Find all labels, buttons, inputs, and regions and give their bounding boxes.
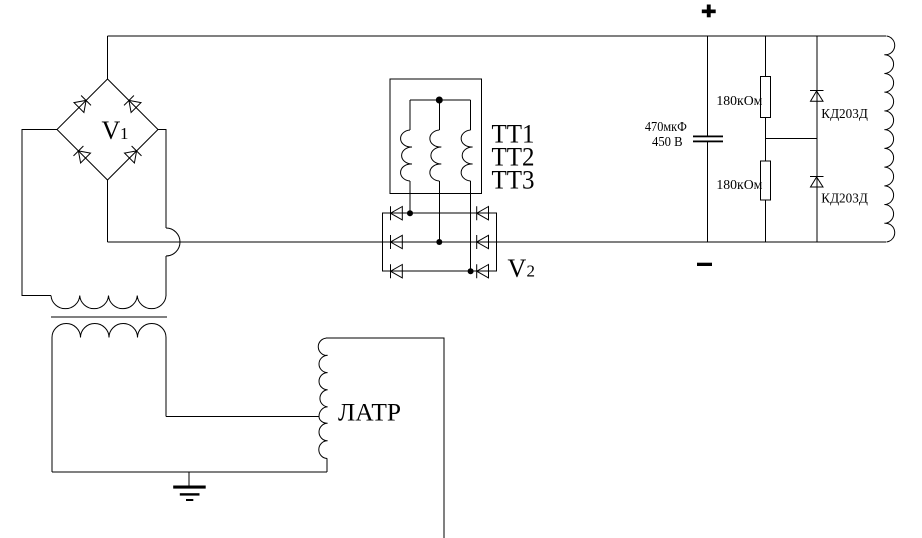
svg-text:450 В: 450 В [652,135,683,150]
svg-text:КД203Д: КД203Д [821,191,868,206]
svg-text:КД203Д: КД203Д [821,107,868,122]
svg-text:V: V [102,116,121,145]
svg-text:2: 2 [527,262,536,281]
svg-text:180кОм: 180кОм [716,94,762,109]
svg-text:180кОм: 180кОм [716,178,762,193]
svg-text:ЛАТР: ЛАТР [338,399,401,426]
svg-text:ТТ3: ТТ3 [492,166,535,195]
svg-text:1: 1 [120,124,129,143]
svg-text:V: V [508,254,527,283]
svg-text:470мкФ: 470мкФ [645,120,687,135]
